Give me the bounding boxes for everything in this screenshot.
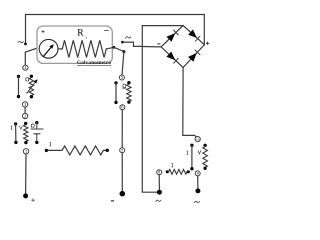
wire switch pivot to node 4 bbox=[24, 52, 26, 65]
resistor Ri zigzag bbox=[62, 40, 106, 57]
svg-text:1: 1 bbox=[25, 149, 27, 154]
switch S2 blade end dot bbox=[122, 50, 125, 53]
junction dot right below node 10 bbox=[203, 144, 206, 147]
label ~ mid bbox=[125, 37, 130, 38]
label + in box bbox=[42, 30, 45, 33]
terminal dot bottom (under node 9) bbox=[195, 188, 200, 193]
label Ohm capacitor bbox=[31, 124, 34, 127]
resistor Ohm mid zigzag bbox=[127, 84, 131, 101]
label - bottom mid bbox=[111, 200, 113, 202]
diode D4 bottom-right bbox=[188, 53, 197, 62]
label I mid bbox=[50, 143, 52, 146]
node 5 bbox=[119, 75, 124, 80]
svg-text:7: 7 bbox=[121, 148, 123, 153]
svg-text:9: 9 bbox=[197, 171, 199, 176]
junction dot left below node 5 bbox=[114, 81, 117, 84]
svg-text:Galvanometro: Galvanometro bbox=[77, 60, 111, 66]
terminal dot + bottom left bbox=[23, 193, 28, 198]
bridge diamond edges bbox=[161, 26, 204, 68]
galvanometer needle bbox=[43, 47, 51, 57]
label ~ under node 8 terminal bbox=[156, 200, 161, 201]
wire left vertical down to bottom-left AC terminal bbox=[142, 26, 159, 193]
rheostat arrow bbox=[27, 82, 36, 93]
terminal dot bottom (under node 8) bbox=[157, 190, 162, 195]
node 4 bbox=[23, 65, 28, 70]
svg-text:8: 8 bbox=[158, 170, 160, 175]
switch branch I (node10-node9) bbox=[191, 145, 193, 168]
svg-text:R: R bbox=[77, 29, 84, 39]
resistor V (node10-node9) bbox=[203, 147, 208, 168]
switch branch wire (node5-node6 left) bbox=[115, 83, 117, 103]
terminal dot mid bottom bbox=[120, 191, 126, 197]
wire galvanometer right lead bbox=[58, 48, 62, 50]
switch S1 blade bbox=[25, 48, 39, 53]
diode D3 bottom-left bbox=[166, 52, 175, 61]
capacitor (node2-node1) bbox=[35, 121, 38, 124]
node 6 bbox=[120, 105, 125, 110]
label V bbox=[19, 126, 22, 129]
wire AC mid to bridge junction bbox=[123, 42, 143, 46]
diode D1 top-left bbox=[166, 33, 175, 42]
node AC terminal left (switch contact) bbox=[24, 43, 27, 46]
wire node 1 down to + terminal bbox=[25, 154, 27, 193]
resistor I horizontal middle bbox=[45, 149, 48, 152]
svg-text:10: 10 bbox=[196, 138, 200, 142]
svg-text:3: 3 bbox=[24, 102, 26, 107]
wire blade end down to node 5 bbox=[122, 52, 124, 75]
svg-text:5: 5 bbox=[121, 75, 123, 80]
wire node 7 down to AC-DC terminal bbox=[121, 153, 123, 191]
galvanometer box bbox=[37, 26, 112, 63]
AC terminal dot mid bbox=[121, 41, 124, 44]
wire node 8 down to AC terminal bbox=[158, 175, 160, 190]
label ~ under node 9 terminal bbox=[194, 201, 199, 202]
wire junction to bridge left vertex bbox=[142, 46, 161, 48]
rheostat branch (node4-node3) bbox=[30, 75, 33, 78]
node 8 bbox=[157, 170, 162, 175]
switch branch wire left (node4-node3) bbox=[17, 75, 20, 78]
node 3 bbox=[22, 102, 27, 107]
label Ohm rheostat bbox=[26, 78, 29, 81]
label - bridge bbox=[158, 43, 160, 45]
label I bbox=[11, 126, 13, 129]
label ~ left bbox=[18, 41, 23, 42]
wire node 9 down to AC terminal bbox=[197, 176, 199, 189]
label + bridge bbox=[206, 42, 209, 45]
node 2 bbox=[22, 113, 27, 118]
switch S2 blade bbox=[114, 47, 124, 51]
svg-text:6: 6 bbox=[121, 105, 123, 110]
label I right bbox=[187, 151, 189, 154]
wire bridge bottom vertex to node 10 bbox=[183, 68, 197, 138]
svg-text:2: 2 bbox=[24, 114, 26, 119]
node 7 bbox=[120, 148, 125, 153]
label I resistor 8-9 bbox=[171, 164, 173, 167]
label - in box bbox=[105, 29, 109, 31]
junction dot left below node 10 bbox=[190, 144, 193, 147]
switch branch I (node2-node1) bbox=[14, 122, 17, 125]
label V right bbox=[198, 150, 201, 153]
diode D2 top-right bbox=[188, 30, 197, 39]
label Ohm mid bbox=[123, 84, 126, 87]
resistor V (node2-node1) bbox=[24, 122, 27, 125]
junction dot right below node 5 bbox=[127, 81, 130, 84]
wire node 6 to node 7 bbox=[121, 110, 123, 148]
wire resistor to box edge / switch S2 pivot bbox=[106, 47, 114, 49]
node 10 bbox=[195, 137, 200, 142]
resistor I (node8-node9) bbox=[166, 170, 169, 173]
node 9 bbox=[195, 171, 200, 176]
galvanometer U1 bbox=[39, 39, 58, 58]
wire top long: AC terminal up, across, down to bridge + vertex bbox=[26, 15, 205, 45]
wire bridge top vertex to left vertical bbox=[142, 25, 183, 27]
label + bottom bbox=[31, 199, 34, 202]
switch S2 pivot dot bbox=[113, 46, 116, 49]
wire node 3 to node 2 bbox=[24, 107, 26, 113]
node 1 bbox=[23, 149, 28, 154]
